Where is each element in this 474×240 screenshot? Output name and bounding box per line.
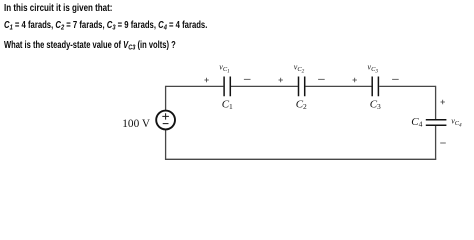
svg-text:C4: C4	[411, 116, 422, 128]
svg-text:C2: C2	[296, 99, 307, 112]
label vC4	[451, 117, 462, 129]
capacitor C3	[372, 77, 378, 97]
minus sign of vC3	[392, 78, 399, 80]
label vC2	[294, 63, 305, 75]
problem statement line 1	[4, 3, 112, 14]
label C1	[222, 99, 233, 112]
label C3	[370, 99, 381, 112]
minus sign of vC2	[318, 78, 325, 80]
voltage source V1 (100 V)	[156, 111, 175, 130]
svg-text:vC1: vC1	[219, 63, 230, 75]
capacitor C4	[426, 120, 447, 126]
capacitor C1	[224, 77, 230, 97]
label C4	[411, 116, 422, 128]
label vC1	[219, 63, 230, 75]
svg-text:vC3: vC3	[368, 63, 379, 75]
problem statement line 3	[4, 40, 176, 51]
wire: top segment C2 to C3	[306, 85, 372, 87]
plus sign of vC2	[279, 78, 283, 82]
svg-text:C3: C3	[370, 99, 381, 112]
svg-text:vC2: vC2	[294, 63, 305, 75]
svg-text:C1: C1	[222, 99, 233, 112]
label vC3	[368, 63, 379, 75]
wire: right vertical above C4	[435, 86, 437, 119]
minus sign of vC1	[244, 78, 251, 80]
label 100 V	[122, 118, 151, 130]
svg-text:vC4: vC4	[451, 117, 462, 129]
svg-text:100 V: 100 V	[122, 118, 151, 130]
plus sign of vC4	[441, 100, 445, 104]
plus sign of vC1	[204, 78, 208, 82]
wire: bottom horizontal	[165, 158, 436, 160]
wire: top segment C3 to top-right corner	[379, 85, 435, 87]
label C2	[296, 99, 307, 112]
wire: left vertical above source	[165, 86, 167, 110]
minus sign of vC4	[440, 142, 446, 144]
wire: top-left horizontal segment	[166, 85, 224, 87]
problem statement line 2	[4, 20, 207, 31]
wire: left vertical below source	[165, 130, 167, 159]
wire: right vertical below C4	[435, 126, 437, 160]
wire: top segment C1 to C2	[231, 85, 298, 87]
plus sign of vC3	[353, 78, 357, 82]
capacitor C2	[299, 77, 305, 97]
